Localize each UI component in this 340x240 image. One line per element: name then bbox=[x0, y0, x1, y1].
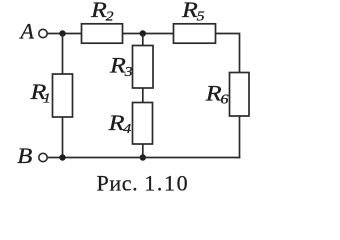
wire junction down to R3 bbox=[142, 34, 144, 46]
resistor R2 bbox=[82, 24, 123, 43]
svg-text:Рис. 1.10: Рис. 1.10 bbox=[97, 171, 190, 196]
junction dot top-left bbox=[59, 30, 65, 36]
resistor R1 bbox=[53, 74, 73, 117]
resistor R6 bbox=[230, 73, 250, 117]
wire R4 to bottom bus bbox=[142, 144, 144, 158]
svg-text:R5: R5 bbox=[181, 0, 205, 24]
resistor R5 bbox=[174, 24, 216, 43]
wire A to R2 bbox=[47, 33, 81, 35]
svg-text:R4: R4 bbox=[108, 112, 132, 137]
node A terminal circle bbox=[39, 29, 47, 37]
wire R2 to R5 bbox=[123, 33, 174, 35]
svg-text:R6: R6 bbox=[205, 82, 229, 107]
resistor R3 bbox=[133, 46, 154, 89]
svg-text:B: B bbox=[17, 144, 32, 168]
node B terminal circle bbox=[39, 153, 47, 161]
wire R5 to right corner and down to R6 bbox=[216, 34, 240, 73]
svg-text:A: A bbox=[19, 19, 35, 44]
bottom bus wire B to right corner bbox=[47, 157, 240, 159]
wire R3 to R4 bbox=[142, 88, 144, 103]
wire R6 to bottom bus corner bbox=[239, 116, 241, 158]
svg-text:R1: R1 bbox=[29, 81, 50, 106]
wire junction down to R1 bbox=[62, 34, 64, 75]
wire R1 to bottom bus bbox=[62, 117, 64, 158]
resistor R4 bbox=[133, 103, 153, 145]
svg-text:R3: R3 bbox=[109, 54, 133, 79]
svg-text:R2: R2 bbox=[90, 0, 114, 24]
junction dot top-middle bbox=[140, 30, 146, 36]
junction dot bottom-left bbox=[59, 154, 65, 160]
junction dot bottom-middle bbox=[140, 154, 146, 160]
